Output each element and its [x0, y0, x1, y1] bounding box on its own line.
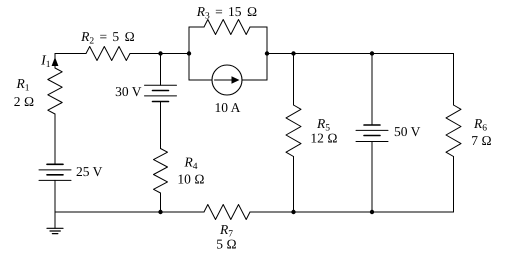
label I1 — [40, 54, 51, 71]
label 30 V — [115, 84, 142, 99]
wire R1 to battery 25V — [54, 114, 56, 164]
wire 50V branch bottom — [371, 142, 373, 213]
svg-text:10 Ω: 10 Ω — [177, 172, 204, 187]
wire R5 branch top — [293, 54, 295, 106]
resistor R1 — [48, 68, 62, 114]
svg-text:25 V: 25 V — [76, 164, 103, 179]
svg-text:2 Ω: 2 Ω — [14, 94, 35, 109]
resistor R3 — [204, 20, 250, 35]
wire bottom rail stub to ground — [54, 212, 56, 228]
svg-text:12 Ω: 12 Ω — [310, 131, 337, 146]
wire 30V branch top — [160, 54, 162, 86]
ground — [47, 228, 63, 233]
wire from R2 to loop left node — [130, 53, 189, 55]
wire loop bottom-left to current source — [189, 79, 212, 81]
resistor R4 — [154, 149, 168, 194]
svg-text:R2 = 5 Ω: R2 = 5 Ω — [80, 29, 135, 47]
wire loop bottom-right from current source — [242, 79, 267, 81]
svg-text:7 Ω: 7 Ω — [471, 133, 492, 148]
node at R2/30V junction — [158, 51, 162, 55]
label 7 ohm — [471, 133, 492, 148]
label 10 A — [215, 100, 241, 115]
svg-text:5 Ω: 5 Ω — [216, 237, 237, 252]
wire bottom rail right segment — [250, 211, 454, 213]
wire loop top-right — [250, 26, 267, 28]
label R2 = 5 ohm — [80, 29, 135, 47]
label R5 — [316, 116, 330, 134]
wire battery 25V to bottom rail — [54, 180, 56, 212]
battery V2 50V — [356, 125, 388, 142]
wire 50V branch top — [371, 54, 373, 126]
svg-text:30 V: 30 V — [115, 84, 142, 99]
label R7 — [219, 222, 233, 240]
resistor R6 — [446, 105, 461, 157]
node loop right top — [265, 51, 269, 55]
node 50V bottom — [370, 210, 374, 214]
svg-text:10 A: 10 A — [215, 100, 241, 115]
node loop left top — [187, 51, 191, 55]
current arrow I1 — [52, 57, 59, 66]
wire R4 to bottom rail — [160, 193, 162, 212]
wire battery 30V to R4 — [160, 102, 162, 149]
label 2 ohm — [14, 94, 35, 109]
wire left branch top (corner to R1) — [54, 54, 56, 69]
svg-text:50 V: 50 V — [394, 124, 421, 139]
node R5 top — [291, 51, 295, 55]
label 50 V — [394, 124, 421, 139]
label R6 — [473, 116, 487, 134]
resistor R5 — [286, 105, 301, 157]
wire top-left horizontal from R1 corner to R2 — [55, 53, 86, 55]
svg-text:R3 = 15 Ω: R3 = 15 Ω — [196, 4, 258, 22]
label R3 = 15 ohm — [196, 4, 258, 22]
battery V1 30V — [145, 85, 177, 101]
wire R6 branch bottom — [453, 157, 455, 213]
wire loop left vertical — [188, 27, 190, 80]
wire bottom rail left segment — [55, 211, 204, 213]
current source U1 10A — [212, 65, 242, 95]
wire R6 branch top — [453, 54, 455, 106]
battery V3 25V — [39, 164, 71, 180]
resistor R2 — [86, 47, 130, 61]
label 5 ohm — [216, 237, 237, 252]
wire top-right horizontal from loop right node to R6 branch — [267, 53, 454, 55]
label R4 — [184, 155, 198, 173]
node 50V top — [370, 51, 374, 55]
label 10 ohm — [177, 172, 204, 187]
wire loop right vertical — [266, 27, 268, 80]
node R5 bottom — [291, 210, 295, 214]
label R1 — [16, 76, 30, 94]
wire R5 branch bottom — [293, 157, 295, 213]
resistor R7 — [204, 205, 250, 220]
node R4 bottom — [158, 210, 162, 214]
wire loop top-left — [189, 26, 204, 28]
label 12 ohm — [310, 131, 337, 146]
label 25 V — [76, 164, 103, 179]
